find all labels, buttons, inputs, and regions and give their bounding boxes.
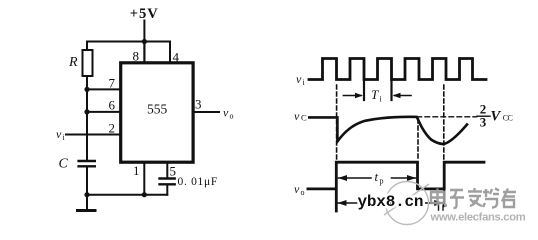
pin number 3 — [195, 97, 202, 112]
svg-text:V: V — [491, 109, 502, 125]
svg-text:8: 8 — [133, 49, 140, 64]
wire pin8 stub — [143, 42, 145, 62]
2/3 fraction label — [480, 102, 487, 130]
Ti label — [371, 87, 383, 104]
capacitor C2 0.01uF plates — [160, 179, 175, 185]
svg-text:555: 555 — [147, 102, 168, 117]
wire top rail left to R — [87, 42, 144, 51]
node dot pin7 tap — [84, 87, 89, 92]
pin number 8 — [133, 49, 140, 64]
svg-text:i: i — [303, 78, 306, 87]
svg-text:C: C — [59, 157, 69, 172]
svg-text:t: t — [375, 169, 379, 184]
svg-text:R: R — [68, 55, 78, 70]
svg-text:2: 2 — [109, 121, 116, 136]
wire pin 1 to ground rail — [143, 163, 145, 195]
wire from +5V down to junction — [143, 21, 145, 42]
dashed line trigger 1 — [336, 85, 338, 161]
period dimension line lower — [338, 202, 442, 204]
char 4 shao — [483, 189, 499, 208]
svg-text:v: v — [223, 106, 229, 120]
svg-text:4: 4 — [173, 50, 180, 65]
char 1 dian — [431, 189, 447, 206]
svg-text:C: C — [301, 113, 307, 123]
svg-text:CC: CC — [503, 114, 513, 123]
node dot pin6 tap — [84, 109, 89, 114]
svg-text:0. 01μF: 0. 01μF — [178, 176, 218, 188]
wire pin 3 output — [193, 111, 219, 113]
vi waveform label — [296, 72, 306, 87]
Ti boundary tick right — [390, 80, 392, 101]
pin number 7 — [109, 76, 116, 91]
capacitor C plates — [79, 161, 95, 166]
pin number 6 — [109, 98, 116, 113]
capacitor C label — [59, 157, 69, 172]
svg-text:3: 3 — [195, 97, 202, 112]
pin number 2 — [109, 121, 116, 136]
tp dimension arrows — [339, 177, 372, 179]
char 2 zi — [450, 190, 464, 208]
node dot ground-left — [84, 192, 89, 197]
char 3 fa — [468, 188, 482, 206]
dashed line timeout — [417, 119, 419, 161]
wire C2 bottom to ground wire — [166, 185, 168, 194]
resistor R label — [68, 55, 78, 70]
555 IC body U1 — [121, 63, 193, 162]
watermark diagonal slash — [384, 184, 429, 215]
svg-text:o: o — [230, 112, 234, 121]
ground symbol — [78, 195, 96, 211]
0.01uF value label — [178, 176, 218, 188]
node dot pin1-ground — [142, 192, 147, 197]
vi pulse waveform — [309, 59, 486, 80]
tp label — [375, 169, 384, 186]
vo output waveform — [308, 162, 484, 211]
+5V supply label — [130, 6, 159, 22]
svg-text:ybx8.cn: ybx8.cn — [358, 193, 424, 211]
Ti boundary tick left — [363, 80, 365, 101]
wire to pin 6 — [87, 111, 120, 113]
watermark circle logo — [386, 182, 429, 225]
pin number 5 — [170, 164, 177, 179]
ground wire horizontal — [87, 194, 167, 196]
svg-text:6: 6 — [109, 98, 116, 113]
svg-text:v: v — [56, 127, 62, 141]
node junction at +5V rail — [142, 39, 147, 44]
wire pin 5 stub — [166, 163, 168, 178]
svg-text:v: v — [294, 182, 300, 196]
svg-text:7: 7 — [109, 76, 116, 91]
watermark chinese characters (blocky glyph shapes) — [431, 188, 516, 208]
dashed line trigger 2 — [443, 85, 445, 161]
pin number 1 — [133, 163, 140, 178]
vo edge2 below-baseline tick — [443, 189, 445, 206]
svg-text:p: p — [380, 177, 384, 186]
vo output label — [223, 106, 234, 121]
svg-text:T: T — [371, 87, 379, 102]
svg-text:o: o — [301, 188, 305, 197]
char 5 you — [502, 189, 516, 208]
wire rail below R — [86, 76, 88, 160]
wire vi input to pin 2 — [66, 134, 120, 136]
vi input label — [56, 127, 66, 142]
Vcc label — [491, 109, 513, 125]
tiny tick marks under edge2 — [439, 206, 444, 211]
svg-text:v: v — [294, 109, 300, 123]
pin number 4 — [173, 50, 180, 65]
Ti dimension arrows — [343, 95, 361, 97]
wire C bottom to ground rail — [86, 168, 88, 195]
svg-text:www.elecfans.com: www.elecfans.com — [430, 212, 526, 224]
wire to pin 7 — [87, 88, 120, 90]
wire junction to pin4 corner — [144, 42, 170, 62]
svg-text:5: 5 — [170, 164, 177, 179]
svg-text:v: v — [296, 72, 302, 86]
2/3 Vcc dashed level — [417, 116, 477, 118]
vc capacitor voltage curve — [309, 117, 467, 144]
svg-text:1: 1 — [133, 163, 140, 178]
resistor R1 body — [83, 50, 93, 76]
vo waveform label — [294, 182, 305, 197]
555 label — [147, 102, 168, 117]
vc waveform label — [294, 109, 307, 123]
svg-text:i: i — [380, 95, 383, 104]
